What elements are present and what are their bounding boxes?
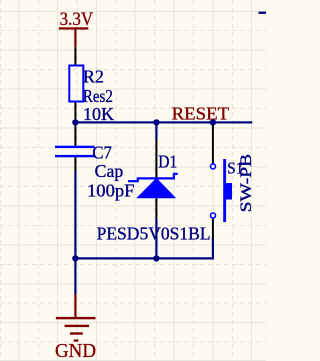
svg-text:R2: R2 <box>83 67 104 87</box>
svg-text:D1: D1 <box>158 151 177 171</box>
svg-text:Res2: Res2 <box>83 86 113 106</box>
svg-text:3.3V: 3.3V <box>60 9 94 30</box>
svg-text:C7: C7 <box>92 142 112 162</box>
svg-text:100pF: 100pF <box>87 180 135 200</box>
svg-text:SW-PB: SW-PB <box>238 154 255 213</box>
svg-text:PESD5V0S1BL: PESD5V0S1BL <box>97 223 211 243</box>
svg-text:RESET: RESET <box>172 104 230 124</box>
svg-text:GND: GND <box>55 340 96 361</box>
svg-text:Cap: Cap <box>95 161 124 181</box>
svg-text:10K: 10K <box>83 104 114 124</box>
